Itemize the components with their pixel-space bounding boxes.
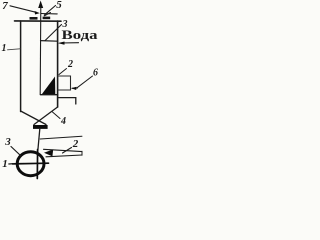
- drain pipe vertical: [38, 129, 40, 151]
- outlet stub bottom right: [58, 98, 76, 104]
- tangential pipe end tick: [81, 151, 83, 155]
- leader from 1 to circle: [9, 163, 14, 165]
- slanted line to the right (drain run): [40, 136, 82, 139]
- svg-text:Вода: Вода: [62, 27, 99, 42]
- leader from 3 to water line: [45, 25, 62, 41]
- svg-text:5: 5: [56, 0, 62, 11]
- cone right line: [34, 107, 58, 125]
- inlet box (side connection): [58, 76, 71, 90]
- leader from 2 to inlet box: [59, 69, 67, 75]
- plan view circle: [17, 152, 44, 176]
- svg-text:1: 1: [2, 158, 8, 170]
- left wall: [20, 21, 22, 112]
- black triangle (flow wedge inside vessel): [42, 77, 56, 95]
- tangential pipe bottom line: [46, 155, 82, 157]
- flange dash right: [43, 17, 51, 20]
- water inlet arrow line: [60, 42, 79, 44]
- svg-text:2: 2: [72, 138, 79, 150]
- svg-text:2: 2: [67, 59, 73, 70]
- svg-text:1: 1: [2, 43, 7, 54]
- arrowhead of leader 5: [45, 13, 51, 16]
- leader from 5: [44, 6, 55, 16]
- leader 6 elbow: [72, 87, 78, 89]
- flow arrowhead into circle: [44, 149, 53, 156]
- svg-text:4: 4: [60, 116, 66, 127]
- leader from 7: [10, 6, 36, 13]
- central pipe: [39, 7, 42, 95]
- tangential pipe top line: [44, 149, 83, 151]
- bottom outlet flange (black bar): [33, 125, 48, 129]
- leader 7 arrowhead: [35, 11, 40, 15]
- vessel top edge: [15, 20, 62, 22]
- leader from 2 to pipe: [63, 148, 72, 154]
- plan cross horizontal: [13, 162, 49, 165]
- leader from 1 to wall: [8, 49, 21, 50]
- svg-text:6: 6: [93, 68, 98, 79]
- plan cross vertical: [36, 150, 38, 179]
- water distribution line inside vessel: [41, 40, 58, 43]
- cover line right of pipe: [41, 13, 57, 15]
- leader from 3 to circle: [11, 147, 21, 156]
- outlet arrow up (top of central pipe): [38, 1, 43, 9]
- svg-text:3: 3: [4, 136, 11, 148]
- water inlet arrowhead: [58, 42, 65, 45]
- svg-text:7: 7: [2, 0, 8, 12]
- cone left line: [21, 111, 46, 125]
- triangle bottom line: [41, 94, 58, 96]
- leader from 6: [77, 76, 93, 88]
- flange dash left: [30, 17, 38, 20]
- leader from 4 to cone: [53, 112, 61, 119]
- leader 6 arrowhead: [71, 87, 77, 90]
- right wall: [57, 21, 59, 107]
